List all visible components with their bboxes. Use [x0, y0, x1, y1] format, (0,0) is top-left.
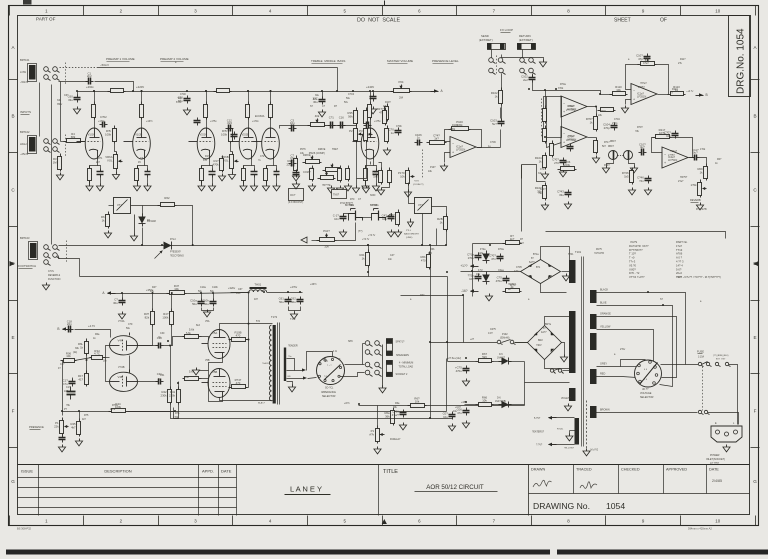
value label R?1 at 98x159 [98, 157, 103, 160]
ground tone middle [352, 186, 359, 193]
ground cathode Ck x141.5 [144, 184, 151, 191]
wire V5A plate to OT [220, 324, 273, 330]
wire ic3 loop [547, 97, 562, 148]
value label C? at 358x200 [358, 198, 362, 201]
label 18v [103, 361, 108, 363]
svg-text:P10?: P10? [323, 229, 330, 233]
value label +170v at 252x122 [252, 120, 259, 123]
resistor cathode Rk x270.5 [264, 166, 268, 184]
ground hum pot [374, 447, 381, 454]
svg-text:T?+3: T?+3 [629, 260, 636, 264]
svg-text:C30: C30 [160, 332, 165, 335]
value label SPK at 348x342 [348, 340, 353, 343]
value label 1k at 93x339 [93, 337, 96, 340]
ground reverb pot [696, 203, 703, 210]
relay contact b [510, 340, 515, 344]
junction dot 556x89 [555, 88, 557, 90]
value label C6? at 64x96 [64, 94, 69, 97]
svg-text:C?0b: C?0b [396, 125, 402, 128]
label BRT103 [20, 236, 30, 240]
resistor P100 feedback [449, 120, 471, 130]
wire screen upper link [231, 339, 232, 341]
value label S? at 660x300 [660, 298, 664, 301]
wire primary BLUE [597, 306, 673, 387]
svg-text:4?0u: 4?0u [496, 279, 503, 283]
ground ic3 mid [592, 156, 599, 163]
wire cathode rk gnd x270.5 [266, 181, 268, 184]
label Dled [170, 239, 176, 241]
svg-text:+170v: +170v [252, 120, 259, 123]
svg-text:6k?: 6k? [520, 242, 525, 245]
label +V bus [362, 238, 370, 241]
svg-text:50u: 50u [291, 300, 296, 304]
svg-text:(T?) (BRN) (BLK): (T?) (BRN) (BLK) [713, 355, 729, 357]
wire jack link vertical [362, 344, 364, 365]
svg-text:36k: 36k [385, 415, 390, 419]
wire tone stack bus [327, 125, 357, 127]
junction rail x370 [369, 90, 371, 92]
svg-text:R?C?E?B: R?C?E?B [696, 208, 707, 211]
wire upper grid to tube [202, 337, 209, 344]
label TITLE [383, 469, 398, 475]
wire tail row b [75, 358, 92, 361]
wire splitter cathode join [129, 356, 131, 373]
wire rail to plate resistor x141.5 [141, 92, 143, 102]
svg-text:10?k: 10?k [110, 408, 116, 411]
wire cathode split x370 [366, 160, 374, 169]
svg-text:C4?: C4? [390, 254, 395, 257]
transistor VT1 box [114, 198, 131, 214]
junction r42 tap [169, 345, 171, 347]
value label a at 528x300 [528, 298, 530, 301]
ground lv mid [485, 294, 492, 301]
wire c9 top [122, 294, 124, 298]
label DATE approval [709, 468, 719, 472]
wire cathode ck gnd x248 [254, 178, 256, 184]
capacitor C20 presence [59, 435, 66, 443]
svg-text:33u: 33u [538, 172, 543, 175]
resistor R32 drive2 [310, 166, 314, 182]
value label R10? at 385x103 [385, 101, 391, 104]
svg-text:BLAC?: BLAC? [258, 402, 266, 405]
resistor R117 mid [550, 141, 554, 158]
wire reverb drive feed [370, 162, 372, 165]
resistor R41a rail [167, 284, 187, 294]
wire r39 to plate b [171, 327, 173, 346]
value label 4? at 58x369 [58, 367, 61, 370]
wire VT1 gate [109, 205, 114, 207]
capacitor C102 fx return [521, 75, 535, 83]
resistor R39 splitter plate b [162, 309, 173, 327]
junction dot 529x89 [528, 88, 530, 90]
wire 6.3V heater line [359, 405, 411, 407]
svg-text:+?4.?v: +?4.?v [362, 238, 370, 241]
svg-text:0u?: 0u? [693, 150, 698, 154]
value label +C0? at 455x408 [455, 406, 461, 409]
resistor cathode Rk x370 [364, 166, 368, 184]
wire cathode rk gnd x141.5 [137, 181, 139, 184]
wire relay link [502, 340, 511, 343]
label HIGH [20, 142, 27, 146]
value label 33u at 538x174 [538, 172, 543, 175]
label +320V [228, 286, 236, 290]
value label P0?6 at 300x150 [300, 148, 306, 151]
ground power cathodes [192, 368, 199, 375]
label fs note1 [48, 270, 54, 273]
ground cathode Rk x370 [362, 184, 369, 191]
svg-text:L???0?a: L???0?a [566, 139, 576, 142]
output transformer core laminations [278, 323, 280, 405]
label LOW [20, 70, 26, 74]
capacitor C62 reservoir [291, 297, 304, 305]
wire OT sec tap 1 [287, 359, 295, 371]
wire ic3b out [588, 137, 597, 139]
svg-text:B: B [706, 93, 708, 97]
resistor R71 rail dropper [214, 89, 232, 93]
svg-text:C6?: C6? [64, 94, 69, 97]
capacitor C113 mid [567, 144, 574, 152]
value label B?1a at 533x255 [533, 253, 539, 256]
junction dot 545x137 [544, 136, 546, 138]
ground reservoir caps [290, 312, 297, 319]
capacitor C108 ic4 fb [664, 131, 678, 139]
wire cathode split x270.5 [267, 160, 274, 169]
value label R50 at 236x294 [236, 292, 241, 295]
resistor R67 bias [476, 352, 494, 362]
svg-text:68k: 68k [71, 135, 76, 139]
capacitor C105 mid [603, 123, 617, 131]
svg-text:SO-?CL: SO-?CL [325, 388, 334, 390]
svg-text:R1?: R1? [205, 155, 210, 158]
svg-text:TT13: TT13 [676, 248, 683, 252]
svg-text:2k7: 2k7 [96, 161, 101, 164]
value label ?0k at 66x406 [66, 404, 71, 407]
value label 50v at 344x103 [344, 101, 349, 104]
svg-text:R62: R62 [164, 196, 170, 200]
junction dot 79x411 [78, 410, 80, 412]
resistor R50 tr [389, 210, 400, 227]
svg-text:−: − [633, 89, 635, 93]
label fs note2 [48, 274, 60, 277]
svg-text:C?06: C?06 [490, 141, 496, 144]
wire tr join [363, 217, 372, 219]
resistor R34 stack [383, 108, 387, 126]
label inlet part [710, 462, 720, 465]
wire bias feed [171, 405, 179, 419]
wire tap3 to selector [308, 378, 317, 379]
value label 6?0v at 176x103 [176, 101, 182, 104]
svg-text:1?a?: 1?a? [676, 244, 682, 248]
svg-text:−: − [563, 101, 565, 105]
junction r38 [152, 292, 154, 294]
capacitor C100 rail [178, 96, 191, 104]
wire rail to plate resistor x94 [94, 92, 96, 102]
value label V?/2A at 118x322 [118, 320, 125, 323]
scan artifact top left [23, 0, 32, 5]
svg-text:(LINE): (LINE) [406, 237, 413, 239]
drawn signature [533, 480, 552, 487]
junction dot 353x91 [352, 90, 354, 92]
wire BR2 out left [515, 342, 528, 344]
wire section boundary corner [546, 232, 726, 239]
svg-text:9BC?: 9BC? [610, 140, 617, 143]
svg-text:1N4?4?(B): 1N4?4?(B) [495, 401, 506, 403]
label DO NOT SCALE [357, 18, 400, 24]
value label C?00 at 180x95 [180, 93, 186, 96]
ground FX loop [539, 60, 546, 67]
wire bias chain [86, 354, 88, 374]
svg-text:DRIVE: DRIVE [303, 154, 311, 157]
value label R?17 at 604x143 [604, 141, 610, 144]
label PART OF [36, 17, 56, 22]
svg-text:+27.5v+(12v): +27.5v+(12v) [447, 357, 461, 360]
wire r38 to plate a [138, 327, 153, 346]
wire splitter to C30 [138, 345, 159, 347]
resistor R101 master [385, 126, 389, 144]
wire R42 tap [170, 346, 172, 387]
wire into IC2 bus [546, 91, 601, 95]
value label R6? at 420x296 [420, 294, 425, 297]
approval table lines [529, 465, 750, 516]
label RECORDING [170, 255, 184, 258]
value label 6L6 at 196x326 [196, 324, 201, 327]
pot P102 reverb [691, 180, 707, 198]
junction ic2 in [599, 93, 601, 95]
wire pot feed [377, 406, 379, 426]
svg-text:VOL: VOL [107, 159, 113, 163]
wire psu caps gnd stub [207, 311, 209, 313]
parts list table [629, 240, 721, 279]
junction rail C102 [321, 90, 323, 92]
value label ?A?10?R at 594x254 [594, 252, 604, 255]
ground tr resistor [394, 230, 401, 237]
svg-text:F?2a: F?2a [480, 248, 486, 251]
wire 352V rail cont [187, 293, 250, 294]
junction dot 133x91 [132, 90, 134, 92]
svg-text:C?02: C?02 [100, 115, 107, 119]
svg-text:10k: 10k [66, 354, 71, 358]
wire grey stub [621, 366, 637, 368]
svg-text:DESCRIPTION: DESCRIPTION [104, 469, 131, 474]
centre marker right [754, 261, 759, 266]
junction r39 [171, 292, 173, 294]
svg-text:10?: 10? [64, 390, 69, 393]
centre marker bottom [382, 519, 387, 524]
svg-text:10p: 10p [666, 134, 671, 138]
chassis dashed line inputs [65, 63, 67, 85]
wire C103 to out [500, 130, 502, 148]
label 50mV jack [20, 80, 29, 84]
value label 6k? at 520x244 [520, 242, 525, 245]
svg-text:P?LL: P?LL [406, 230, 412, 232]
wire primary ORANGE [597, 317, 677, 378]
wire res caps join [289, 307, 301, 311]
junction dot 62x411 [61, 410, 63, 412]
svg-text:1N4007: 1N4007 [497, 358, 506, 360]
value label 0.0? at 488x334 [488, 332, 493, 335]
wire screen upper to HT [246, 339, 249, 341]
resistor R31 drive [346, 166, 350, 182]
resistor R21 reverb [388, 168, 392, 185]
svg-text:G: G [11, 479, 15, 484]
label selector ohms [325, 388, 334, 390]
value label +2? at 470x340 [470, 338, 475, 341]
op-amp IC4 reverb recovery [662, 147, 688, 168]
voltage selector pins [637, 361, 658, 385]
svg-text:470u: 470u [456, 369, 463, 373]
capacitor C101 tap [389, 128, 402, 136]
svg-text:230k: 230k [161, 394, 168, 398]
svg-text:+4.7V: +4.7V [88, 324, 95, 328]
wire cathode cap link x270.5 [274, 166, 277, 169]
voltage selector SW1 circle [635, 360, 662, 387]
svg-text:50u: 50u [126, 327, 131, 330]
svg-text:C?4?: C?4? [540, 168, 546, 171]
wire R41 tap [178, 382, 180, 387]
resistor R66 bias2 [476, 396, 494, 407]
wire cathode cap link x370 [374, 166, 377, 169]
FX ground bus [502, 55, 544, 61]
svg-text:YELLOW: YELLOW [600, 326, 611, 329]
value label 4 Ω at 333x352 [333, 350, 337, 353]
label TREBLE2 [322, 184, 331, 187]
svg-text:A?06: A?06 [676, 252, 683, 256]
footswitch contact b [53, 245, 60, 251]
wire bias2 rail [465, 404, 476, 406]
wire fx r102 down [501, 106, 503, 122]
FX jack contact r4 [529, 68, 536, 74]
wire jack sleeve bus lower [51, 85, 53, 245]
junction BR1 out [471, 270, 473, 272]
switch dashed link [702, 367, 704, 411]
diode D1 switch [139, 214, 152, 227]
wire BR1 top corner [541, 247, 570, 261]
svg-text:R?4?: R?4? [604, 164, 610, 167]
value label 40? at 254x300 [254, 298, 259, 301]
ground R32 [308, 184, 315, 191]
pentode V5B lower [202, 369, 231, 398]
svg-text:2?0v: 2?0v [620, 348, 626, 351]
resistor R6b relay [420, 252, 430, 270]
ground speaker chain [379, 386, 386, 393]
value label 5-6k at 186x334 [186, 332, 191, 335]
wire rail to A arrow [410, 91, 435, 93]
wire cathode split x206 [202, 160, 210, 169]
svg-text:2M: 2M [399, 95, 404, 99]
value label 50u at 346x99 [346, 97, 351, 100]
resistor cathode Rk x206 [200, 166, 204, 184]
ground cathode Ck x270.5 [273, 184, 280, 191]
wire VT3 bottom to bus [422, 214, 424, 246]
svg-text:T?01: T?01 [568, 253, 574, 256]
wire IC1 fb to out [471, 130, 482, 148]
value label R?4a at 112x406 [112, 404, 118, 407]
svg-text:A 0 ?: A 0 ? [676, 256, 683, 260]
wire cathode rk gnd x94 [89, 181, 91, 184]
wire tone pots down [356, 141, 358, 186]
svg-text:10n: 10n [382, 217, 387, 221]
wire neutral to inlet [708, 413, 739, 425]
tiny sheet size note bottom right [688, 527, 712, 531]
value label C1? at 66x388 [66, 386, 71, 389]
wire cathode cap link x206 [210, 166, 213, 169]
svg-text:1?0k: 1?0k [173, 416, 179, 419]
junction dot 463x295 [462, 294, 464, 296]
svg-text:C?C0: C?C0 [348, 93, 355, 96]
resistor R40 grid upper [183, 328, 202, 339]
series capacitor C19 dark [67, 387, 76, 400]
value label 56p at 178x99 [178, 97, 183, 100]
value label 1?0k at 173x418 [173, 416, 179, 419]
wire IC1 plus [445, 153, 451, 163]
junction rail x141.5 [141, 90, 143, 92]
switch contact 4 [725, 362, 730, 366]
value label NOD at 370x196 [370, 194, 376, 197]
value label R? at 520x240 [520, 238, 524, 241]
label R-BL [557, 429, 564, 431]
FX return drop [522, 50, 524, 58]
svg-text:~50mV: ~50mV [20, 80, 29, 84]
capacitor C71 [467, 253, 481, 261]
svg-text:R?0: R?0 [350, 198, 355, 201]
FX send drop [491, 50, 493, 58]
value label a at 614x355 [614, 353, 616, 356]
svg-text:1M: 1M [53, 161, 58, 165]
svg-text:V4A: V4A [118, 338, 123, 342]
svg-text:?ELLOW?: ?ELLOW? [564, 448, 575, 450]
resistor R115 ic4 in [622, 168, 634, 185]
svg-text:?A?10?R: ?A?10?R [594, 252, 604, 255]
svg-text:CHECKED: CHECKED [621, 468, 640, 472]
ground cathode Rk x248 [240, 184, 247, 191]
ground bias c65 [462, 379, 469, 386]
junction rail x248 [247, 90, 249, 92]
pot P103 fx mix [317, 229, 337, 248]
label REVERB tank [604, 164, 610, 167]
svg-text:V2/2B: V2/2B [242, 132, 249, 136]
mains transformer left bars [569, 260, 576, 401]
value label F.?2 at 478x271 [478, 269, 483, 272]
svg-text:5k?: 5k? [602, 145, 607, 148]
junction rail C0C0 [372, 90, 374, 92]
svg-text:TOTAL LOAD: TOTAL LOAD [399, 365, 414, 368]
ground C8 [292, 182, 299, 189]
value label C?9 at 128x325 [128, 323, 133, 326]
centre tick top [384, 1, 386, 6]
resistor plate load for tube at x270.5 [269, 102, 273, 120]
label VOLTAGE [640, 392, 652, 395]
value label 1k at 715x164 [715, 162, 718, 165]
svg-text:350v: 350v [57, 103, 63, 106]
svg-text:INPUTS: INPUTS [20, 110, 31, 114]
wire left drop [62, 361, 64, 412]
svg-text:C10b: C10b [212, 286, 218, 289]
label fs note3 [48, 278, 61, 281]
value label 50u at 210x292 [210, 290, 215, 293]
ground preamp1 pot [112, 172, 119, 180]
capacitor cathode Ck x206 [209, 169, 216, 178]
label +352v [146, 288, 154, 292]
svg-text:470: 470 [236, 333, 241, 337]
value label a at 628x60 [628, 58, 630, 61]
svg-text:10n: 10n [334, 217, 339, 221]
LED D2 present [155, 242, 172, 259]
wire rail drop to C60 [77, 92, 79, 96]
svg-text:4 Ω: 4 Ω [333, 350, 337, 353]
diode D4 [483, 272, 490, 285]
svg-text:LF351N: LF351N [456, 148, 465, 152]
svg-text:8?0: 8?0 [203, 159, 208, 162]
